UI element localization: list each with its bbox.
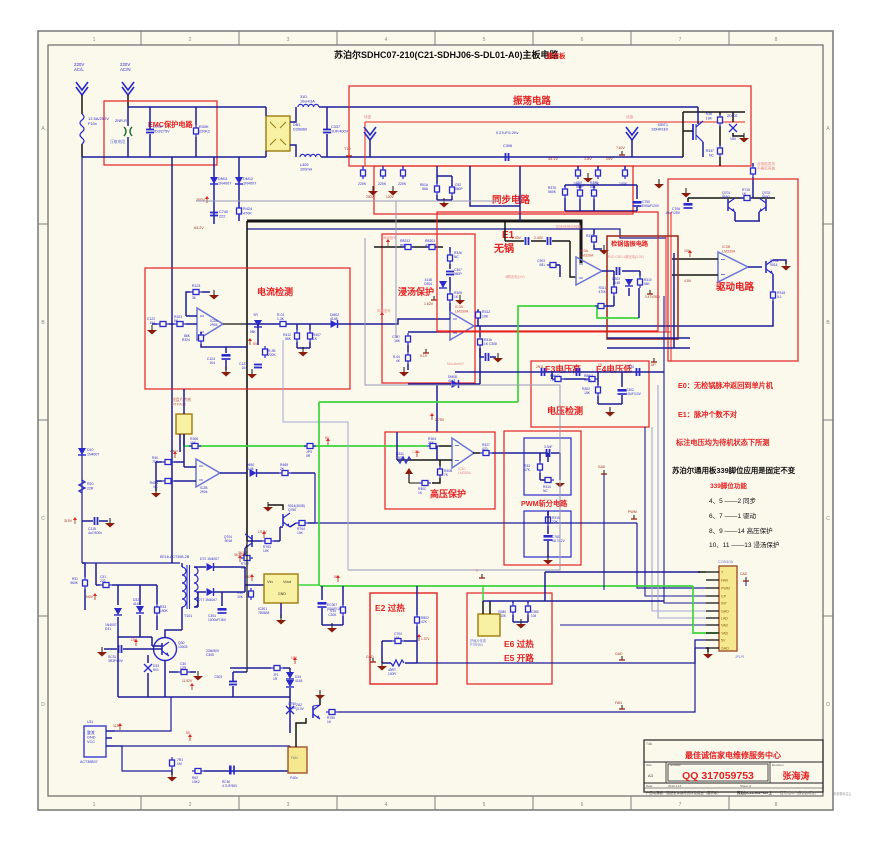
ground bbox=[209, 290, 219, 300]
svg-text:56K: 56K bbox=[644, 282, 651, 286]
svg-text:10K: 10K bbox=[237, 595, 244, 599]
label 10V c bbox=[291, 656, 298, 664]
svg-text:E05UF/20V: E05UF/20V bbox=[642, 204, 660, 208]
wire bbox=[82, 156, 266, 158]
wire bbox=[290, 145, 296, 157]
coil terminal 1 bbox=[364, 114, 376, 157]
label 0.1V bbox=[420, 349, 429, 358]
resistor R310 bbox=[638, 276, 652, 288]
svg-text:GND: GND bbox=[278, 592, 286, 596]
wire bbox=[752, 177, 754, 198]
IGBT1 bbox=[651, 121, 703, 142]
svg-text:多参数标注(): 多参数标注() bbox=[833, 791, 851, 796]
wire bbox=[82, 520, 93, 522]
ground bbox=[368, 186, 378, 196]
resistor 7R1 bbox=[170, 757, 184, 769]
wire bbox=[247, 229, 666, 238]
svg-text:1N4007: 1N4007 bbox=[218, 182, 231, 186]
svg-text:LM339A: LM339A bbox=[458, 471, 471, 475]
wire bbox=[551, 372, 553, 379]
svg-text:FAN: FAN bbox=[615, 701, 622, 705]
label 浸汤保护 bbox=[398, 286, 434, 297]
resistor R31 bbox=[70, 577, 87, 589]
op-amp IC3A bbox=[576, 249, 602, 285]
pink note2 bbox=[377, 308, 391, 319]
label 同步电路 bbox=[492, 194, 531, 206]
capacitor C38 bbox=[392, 333, 410, 345]
wire bbox=[220, 472, 247, 474]
ground bbox=[97, 647, 107, 657]
svg-text:5V1: 5V1 bbox=[153, 668, 159, 672]
resistor R378 bbox=[590, 181, 598, 199]
transistor Q704 bbox=[224, 534, 252, 548]
svg-text:22R: 22R bbox=[87, 486, 94, 490]
label 319V bbox=[64, 517, 77, 524]
bridge rectifier DB1 bbox=[266, 116, 290, 151]
wire bbox=[702, 142, 704, 157]
resistor R62 bbox=[192, 769, 204, 785]
wire bbox=[201, 344, 247, 347]
svg-text:4: 4 bbox=[385, 802, 388, 808]
ground bbox=[703, 648, 713, 659]
wire bbox=[183, 434, 185, 467]
resistor R304h bbox=[427, 437, 439, 449]
op-amp IC3C bbox=[452, 438, 474, 475]
resistor R412 bbox=[283, 324, 299, 342]
svg-text:8050: 8050 bbox=[762, 195, 770, 199]
label PWM斩分电路 bbox=[521, 499, 568, 508]
wire bbox=[622, 270, 640, 272]
svg-text:15V: 15V bbox=[730, 137, 737, 141]
resistor R306g bbox=[189, 437, 201, 449]
wire bbox=[564, 185, 566, 187]
box E1 无锅 bbox=[437, 212, 658, 331]
svg-text:220K2: 220K2 bbox=[199, 130, 210, 134]
capacitor C2.4a bbox=[512, 236, 529, 245]
wire bbox=[556, 264, 560, 266]
svg-text:470K: 470K bbox=[599, 290, 607, 294]
capacitor C70b bbox=[544, 535, 566, 543]
svg-text:4148: 4148 bbox=[448, 379, 456, 383]
svg-text:U11: U11 bbox=[87, 720, 93, 724]
svg-text:10K: 10K bbox=[190, 441, 197, 445]
resistor R316b bbox=[152, 456, 174, 465]
svg-text:F40x: F40x bbox=[290, 776, 298, 780]
note 339 bbox=[672, 466, 796, 475]
resistor R324 bbox=[182, 332, 204, 344]
label CAD bbox=[740, 572, 749, 581]
diode DM11 bbox=[210, 177, 231, 186]
label 电流检测 bbox=[257, 286, 293, 297]
wire bbox=[115, 697, 171, 731]
connector CON10A bbox=[719, 566, 737, 651]
fuse F10x bbox=[80, 114, 109, 144]
label 10.2V bbox=[258, 530, 267, 538]
wire bbox=[171, 769, 173, 775]
box 检锅谐振电路 bbox=[607, 236, 678, 339]
svg-text:220K: 220K bbox=[378, 182, 387, 186]
svg-text:104: 104 bbox=[394, 636, 400, 640]
svg-text:PTRPAN: PTRPAN bbox=[470, 643, 483, 647]
resistor R313 bbox=[586, 229, 597, 245]
ground bbox=[247, 369, 257, 379]
label 1.37V bbox=[417, 634, 430, 641]
svg-text:E5 开路: E5 开路 bbox=[504, 653, 534, 663]
capacitor C337 bbox=[323, 125, 349, 134]
svg-text:560P: 560P bbox=[454, 272, 463, 276]
EMC box bbox=[104, 101, 217, 165]
wire bbox=[319, 106, 698, 108]
svg-text:470: 470 bbox=[482, 447, 488, 451]
resistor R376 bbox=[548, 186, 568, 198]
wire bbox=[544, 572, 546, 601]
wire bbox=[697, 107, 699, 124]
wire bbox=[169, 671, 178, 673]
wire bbox=[81, 95, 83, 114]
green link bbox=[319, 401, 518, 403]
ground bbox=[167, 772, 177, 782]
box PWM斩分电路 bbox=[504, 431, 581, 565]
green drop right bbox=[693, 586, 719, 633]
svg-text:5V: 5V bbox=[721, 639, 726, 643]
AC L terminal bbox=[74, 62, 88, 95]
svg-text:4: 4 bbox=[385, 37, 388, 43]
resistor R337 bbox=[706, 145, 723, 157]
op-amp IC2B bbox=[196, 459, 220, 494]
ground bbox=[399, 367, 409, 377]
label 2.75V bbox=[430, 413, 445, 422]
resistor R307 20K bbox=[573, 166, 581, 186]
svg-text:振荡电路: 振荡电路 bbox=[513, 95, 552, 107]
label GAD bbox=[615, 652, 625, 660]
wire bbox=[408, 331, 450, 333]
svg-text:339脚位功能: 339脚位功能 bbox=[710, 481, 747, 490]
capacitor SC31 bbox=[108, 645, 124, 663]
svg-text:63.2V: 63.2V bbox=[194, 226, 204, 230]
ground bbox=[516, 619, 526, 629]
capacitor C301 bbox=[617, 267, 620, 275]
svg-text:CON10A: CON10A bbox=[718, 560, 734, 564]
svg-text:10V: 10V bbox=[291, 656, 298, 660]
svg-text:200V: 200V bbox=[366, 195, 375, 199]
capacitor C302 bbox=[618, 372, 642, 396]
diode D303 bbox=[612, 277, 633, 286]
label E6 过热 bbox=[504, 639, 534, 649]
svg-text:产品电源板：图纸全体维修资料免费送（高清晰）: 产品电源板：图纸全体维修资料免费送（高清晰） bbox=[646, 790, 721, 795]
svg-text:E2 过热: E2 过热 bbox=[375, 603, 405, 613]
svg-text:6: 6 bbox=[581, 802, 584, 808]
svg-text:1N4007: 1N4007 bbox=[87, 452, 99, 456]
svg-text:4.7UF/50V: 4.7UF/50V bbox=[222, 784, 238, 788]
svg-text:同步信号比较器: 同步信号比较器 bbox=[556, 224, 582, 229]
label 36.5V b bbox=[234, 553, 243, 562]
svg-text:5V: 5V bbox=[325, 436, 330, 440]
svg-text:710V: 710V bbox=[616, 146, 625, 150]
wire bbox=[492, 452, 548, 454]
label E3电压高 bbox=[545, 364, 581, 374]
capacitor C303 bbox=[537, 259, 559, 268]
svg-text:2904: 2904 bbox=[200, 490, 208, 494]
resistor R8212 bbox=[400, 239, 414, 250]
svg-text:LAD: LAD bbox=[721, 617, 728, 621]
svg-text:C305: C305 bbox=[328, 613, 336, 617]
capacitor C303b bbox=[214, 672, 237, 697]
label 检锅谐振电路 bbox=[611, 240, 649, 248]
wire bbox=[602, 270, 614, 272]
svg-text:D: D bbox=[41, 702, 45, 708]
note pin2 bbox=[709, 512, 756, 520]
note 脚位功能 bbox=[710, 481, 747, 490]
svg-text:100R: 100R bbox=[388, 672, 397, 676]
svg-text:T: T bbox=[476, 569, 478, 573]
svg-text:150K: 150K bbox=[160, 609, 169, 613]
wire bbox=[512, 601, 514, 603]
diode D77 bbox=[198, 588, 217, 602]
wire bbox=[117, 617, 119, 637]
label 电压检测 bbox=[547, 405, 583, 416]
IGBT sensor bbox=[478, 614, 500, 636]
label UP bbox=[651, 358, 657, 367]
wire bbox=[115, 746, 172, 771]
op-amp IC3B bbox=[718, 245, 748, 282]
svg-text:AC/L: AC/L bbox=[74, 67, 84, 72]
svg-text:检锅谐振电路: 检锅谐振电路 bbox=[611, 240, 649, 248]
svg-text:2K: 2K bbox=[280, 467, 285, 471]
wire bbox=[688, 197, 775, 199]
svg-text:86K: 86K bbox=[285, 337, 292, 341]
resistor R38 19K bbox=[706, 112, 723, 126]
label E4电压低 bbox=[596, 364, 632, 374]
jumper JP3 bbox=[304, 444, 316, 459]
wire bbox=[115, 745, 290, 747]
title block frame bbox=[644, 740, 823, 792]
wire bbox=[408, 383, 451, 385]
svg-text:2: 2 bbox=[189, 802, 192, 808]
svg-text:9018: 9018 bbox=[225, 539, 233, 543]
wire bbox=[151, 637, 153, 646]
wire bbox=[505, 240, 524, 242]
svg-text:D31: D31 bbox=[105, 627, 111, 631]
wire bbox=[613, 296, 615, 306]
red vline2 bbox=[670, 212, 672, 361]
ground bbox=[105, 518, 115, 528]
label probe 2.49V bbox=[170, 449, 178, 458]
wire bbox=[539, 453, 541, 461]
lavender vline bbox=[283, 340, 348, 570]
svg-text:560K: 560K bbox=[548, 190, 557, 194]
resistor R309 100K bbox=[619, 166, 628, 186]
svg-text:4148: 4148 bbox=[246, 467, 254, 471]
label FAN bbox=[615, 701, 625, 709]
diode DM08 bbox=[448, 375, 459, 388]
diode D32 bbox=[133, 598, 144, 613]
capacitor C3n3 bbox=[544, 445, 552, 457]
pink note sync bbox=[556, 224, 582, 229]
wire bbox=[436, 446, 438, 460]
wire bbox=[194, 566, 206, 568]
AC N terminal bbox=[120, 62, 134, 95]
svg-text:风扇信号: 风扇信号 bbox=[377, 308, 391, 313]
resistor R306 220K bbox=[398, 167, 407, 186]
resistor R802 bbox=[415, 614, 430, 626]
wire bbox=[382, 662, 391, 664]
svg-text:此电阻发热: 此电阻发热 bbox=[757, 161, 775, 166]
svg-text:苏泊尔C21-S01~S07上: 苏泊尔C21-S01~S07上 bbox=[737, 790, 773, 795]
svg-text:最佳诚信家电维修服务中心: 最佳诚信家电维修服务中心 bbox=[685, 750, 781, 760]
title bottom note bbox=[646, 790, 818, 795]
svg-text:1.37V: 1.37V bbox=[421, 637, 430, 641]
capacitor C115 bbox=[88, 517, 102, 535]
svg-text:11.52V: 11.52V bbox=[182, 679, 193, 683]
IC U11 bbox=[80, 720, 106, 764]
wire bbox=[570, 241, 576, 277]
wire bbox=[474, 301, 773, 326]
svg-text:7: 7 bbox=[679, 37, 682, 43]
resistor R327 bbox=[473, 443, 492, 456]
resistor R319 bbox=[546, 511, 561, 526]
svg-text:线盘片传感: 线盘片传感 bbox=[172, 397, 191, 402]
svg-text:4u7/400v: 4u7/400v bbox=[88, 531, 102, 535]
capacitor C31 bbox=[100, 575, 112, 588]
wire bbox=[397, 459, 452, 461]
svg-text:A3: A3 bbox=[648, 773, 654, 778]
label 710V bbox=[616, 146, 625, 155]
svg-text:5V: 5V bbox=[253, 342, 258, 346]
resistor R311h bbox=[396, 452, 411, 463]
resistor R710 bbox=[741, 188, 753, 201]
wire bbox=[181, 563, 183, 567]
capacitor C71E bbox=[146, 125, 170, 134]
svg-text:7: 7 bbox=[679, 802, 682, 808]
note E0 bbox=[678, 381, 774, 390]
svg-text:100mH: 100mH bbox=[300, 168, 312, 172]
jumper JP1 bbox=[271, 666, 283, 682]
capacitor C313 bbox=[628, 365, 640, 376]
svg-text:8: 8 bbox=[775, 37, 778, 43]
svg-text:电流检测: 电流检测 bbox=[257, 286, 293, 297]
svg-text:10K: 10K bbox=[297, 531, 304, 535]
label 36.5V bbox=[238, 551, 247, 560]
wire bbox=[152, 323, 157, 325]
svg-text:26K: 26K bbox=[428, 441, 435, 445]
svg-text:10UF/10V: 10UF/10V bbox=[626, 392, 642, 396]
svg-text:2N11: 2N11 bbox=[536, 365, 544, 369]
svg-text:10K: 10K bbox=[482, 314, 489, 318]
svg-text:1UF/400V: 1UF/400V bbox=[331, 130, 349, 134]
svg-text:SDHR1E0: SDHR1E0 bbox=[651, 127, 668, 131]
resistor R20 bbox=[79, 480, 94, 493]
svg-text:整流: 整流 bbox=[87, 730, 95, 735]
label 22M50V bbox=[206, 649, 220, 657]
svg-text:NoLabel07: NoLabel07 bbox=[447, 362, 464, 366]
note pin1 bbox=[709, 497, 756, 505]
resistor R34 bbox=[328, 586, 345, 617]
title tag 通用板 bbox=[546, 51, 566, 60]
resistor R8201 bbox=[425, 239, 438, 250]
wire bbox=[174, 461, 184, 463]
svg-text:47K: 47K bbox=[421, 620, 428, 624]
transistor Q30 bbox=[154, 638, 188, 661]
diode DM02 bbox=[330, 313, 339, 328]
resistor R380 bbox=[498, 603, 515, 618]
ground bbox=[377, 661, 387, 671]
capacitor C2.4b bbox=[534, 236, 551, 245]
svg-text:10、11 ——13 浸汤保护: 10、11 ——13 浸汤保护 bbox=[709, 540, 779, 549]
svg-text:0R: 0R bbox=[306, 454, 311, 458]
wire bbox=[321, 608, 323, 625]
resistor R315 bbox=[771, 289, 786, 301]
svg-text:IC3D: IC3D bbox=[455, 305, 464, 309]
svg-text:340V: 340V bbox=[85, 595, 94, 599]
svg-text:2904: 2904 bbox=[210, 323, 218, 327]
pink note jg bbox=[608, 254, 644, 259]
capacitor C750 bbox=[633, 200, 660, 208]
title block small labels bbox=[646, 742, 784, 788]
wire bbox=[233, 671, 247, 673]
green 5V rail bbox=[320, 585, 693, 587]
ground bbox=[221, 367, 231, 377]
label GAD2 bbox=[366, 655, 376, 662]
svg-text:Number: Number bbox=[670, 763, 681, 767]
svg-text:浸汤保护: 浸汤保护 bbox=[398, 286, 434, 297]
box 同步电路 bbox=[374, 166, 633, 214]
svg-text:C305: C305 bbox=[206, 653, 214, 657]
svg-text:36.5V: 36.5V bbox=[234, 553, 243, 557]
label 5V probe bbox=[248, 338, 258, 346]
svg-text:16K: 16K bbox=[394, 339, 401, 343]
label PWM bbox=[628, 510, 637, 519]
svg-text:C740: C740 bbox=[219, 210, 228, 214]
svg-text:4148: 4148 bbox=[330, 317, 338, 321]
svg-text:PWM: PWM bbox=[628, 510, 637, 514]
svg-text:2013.1.12: 2013.1.12 bbox=[668, 784, 682, 788]
resistor R30s bbox=[237, 588, 254, 600]
svg-text:R123: R123 bbox=[192, 284, 200, 288]
svg-text:98K: 98K bbox=[250, 330, 257, 334]
ground bbox=[263, 502, 283, 512]
label EMC保护电路 bbox=[148, 120, 194, 129]
label 115V bbox=[113, 723, 122, 730]
svg-text:220K: 220K bbox=[358, 182, 367, 186]
capacitor C311 bbox=[536, 365, 545, 376]
svg-text:319V: 319V bbox=[64, 519, 73, 523]
svg-text:DM12: DM12 bbox=[243, 177, 253, 181]
varistor ZNR bbox=[110, 119, 132, 144]
varistor YR bbox=[250, 313, 262, 334]
PWM rail bbox=[315, 473, 637, 523]
lav wire2 bbox=[658, 385, 706, 618]
capacitor C308b bbox=[480, 348, 489, 361]
connector label JP bbox=[735, 655, 745, 659]
svg-text:R424: R424 bbox=[243, 207, 252, 211]
svg-text:INT: INT bbox=[721, 602, 728, 606]
wire bbox=[748, 266, 762, 268]
svg-text:R30K: R30K bbox=[199, 125, 209, 129]
label 1.62V bbox=[424, 296, 437, 306]
capacitor C706 bbox=[665, 203, 692, 215]
resistor R30B bbox=[438, 466, 454, 478]
diode D72 bbox=[200, 557, 219, 571]
resistor R51A bbox=[420, 166, 440, 195]
svg-text:15K: 15K bbox=[584, 391, 591, 395]
svg-text:10K: 10K bbox=[263, 549, 270, 553]
svg-text:Date:: Date: bbox=[646, 784, 653, 788]
capacitor C704 bbox=[392, 632, 404, 644]
wire bbox=[719, 126, 721, 146]
GAD rail bbox=[417, 640, 706, 663]
svg-text:GAD: GAD bbox=[721, 610, 729, 614]
wire bbox=[257, 324, 259, 345]
